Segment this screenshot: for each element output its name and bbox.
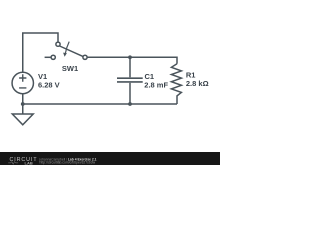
switch SW1 open throw stub: [45, 56, 52, 58]
svg-text:6.28 V: 6.28 V: [38, 80, 60, 89]
wire switch to node A and resistor top: [87, 57, 177, 63]
footer bar: [0, 152, 220, 165]
node A junction dot: [128, 55, 132, 59]
capacitor C1 bottom plate: [117, 81, 143, 83]
footer logo trace glyph: [8, 162, 18, 165]
switch SW1 pole terminal: [56, 42, 60, 46]
ground: [12, 114, 33, 125]
capacitor C1 top plate: [117, 77, 143, 79]
svg-text:2.8 kΩ: 2.8 kΩ: [186, 79, 209, 88]
wire V1 bottom to ground node: [22, 94, 24, 114]
svg-text:LAB: LAB: [25, 160, 33, 165]
svg-text:http://circuitlab.com/c/b6pev3: http://circuitlab.com/c/b6pev327sb3w: [40, 160, 96, 164]
wire capacitor bottom plate to node B: [129, 83, 131, 104]
voltage source V1: [12, 72, 33, 93]
switch SW1 blade: [60, 46, 83, 56]
node B junction dot: [128, 102, 132, 106]
switch SW1 actuator arrow shaft: [65, 42, 69, 54]
resistor R1: [171, 64, 181, 104]
switch SW1 open throw terminal: [51, 55, 55, 59]
wire node A to capacitor top plate: [129, 57, 131, 77]
switch SW1 closed throw terminal: [83, 55, 87, 59]
ground node junction dot: [21, 102, 25, 106]
wire bottom rail: [23, 103, 177, 105]
wire V1 top to switch pole: [23, 33, 58, 72]
svg-text:2.8 mF: 2.8 mF: [144, 81, 168, 90]
svg-text:SW1: SW1: [62, 64, 78, 73]
switch SW1 actuator arrowhead: [63, 53, 67, 57]
